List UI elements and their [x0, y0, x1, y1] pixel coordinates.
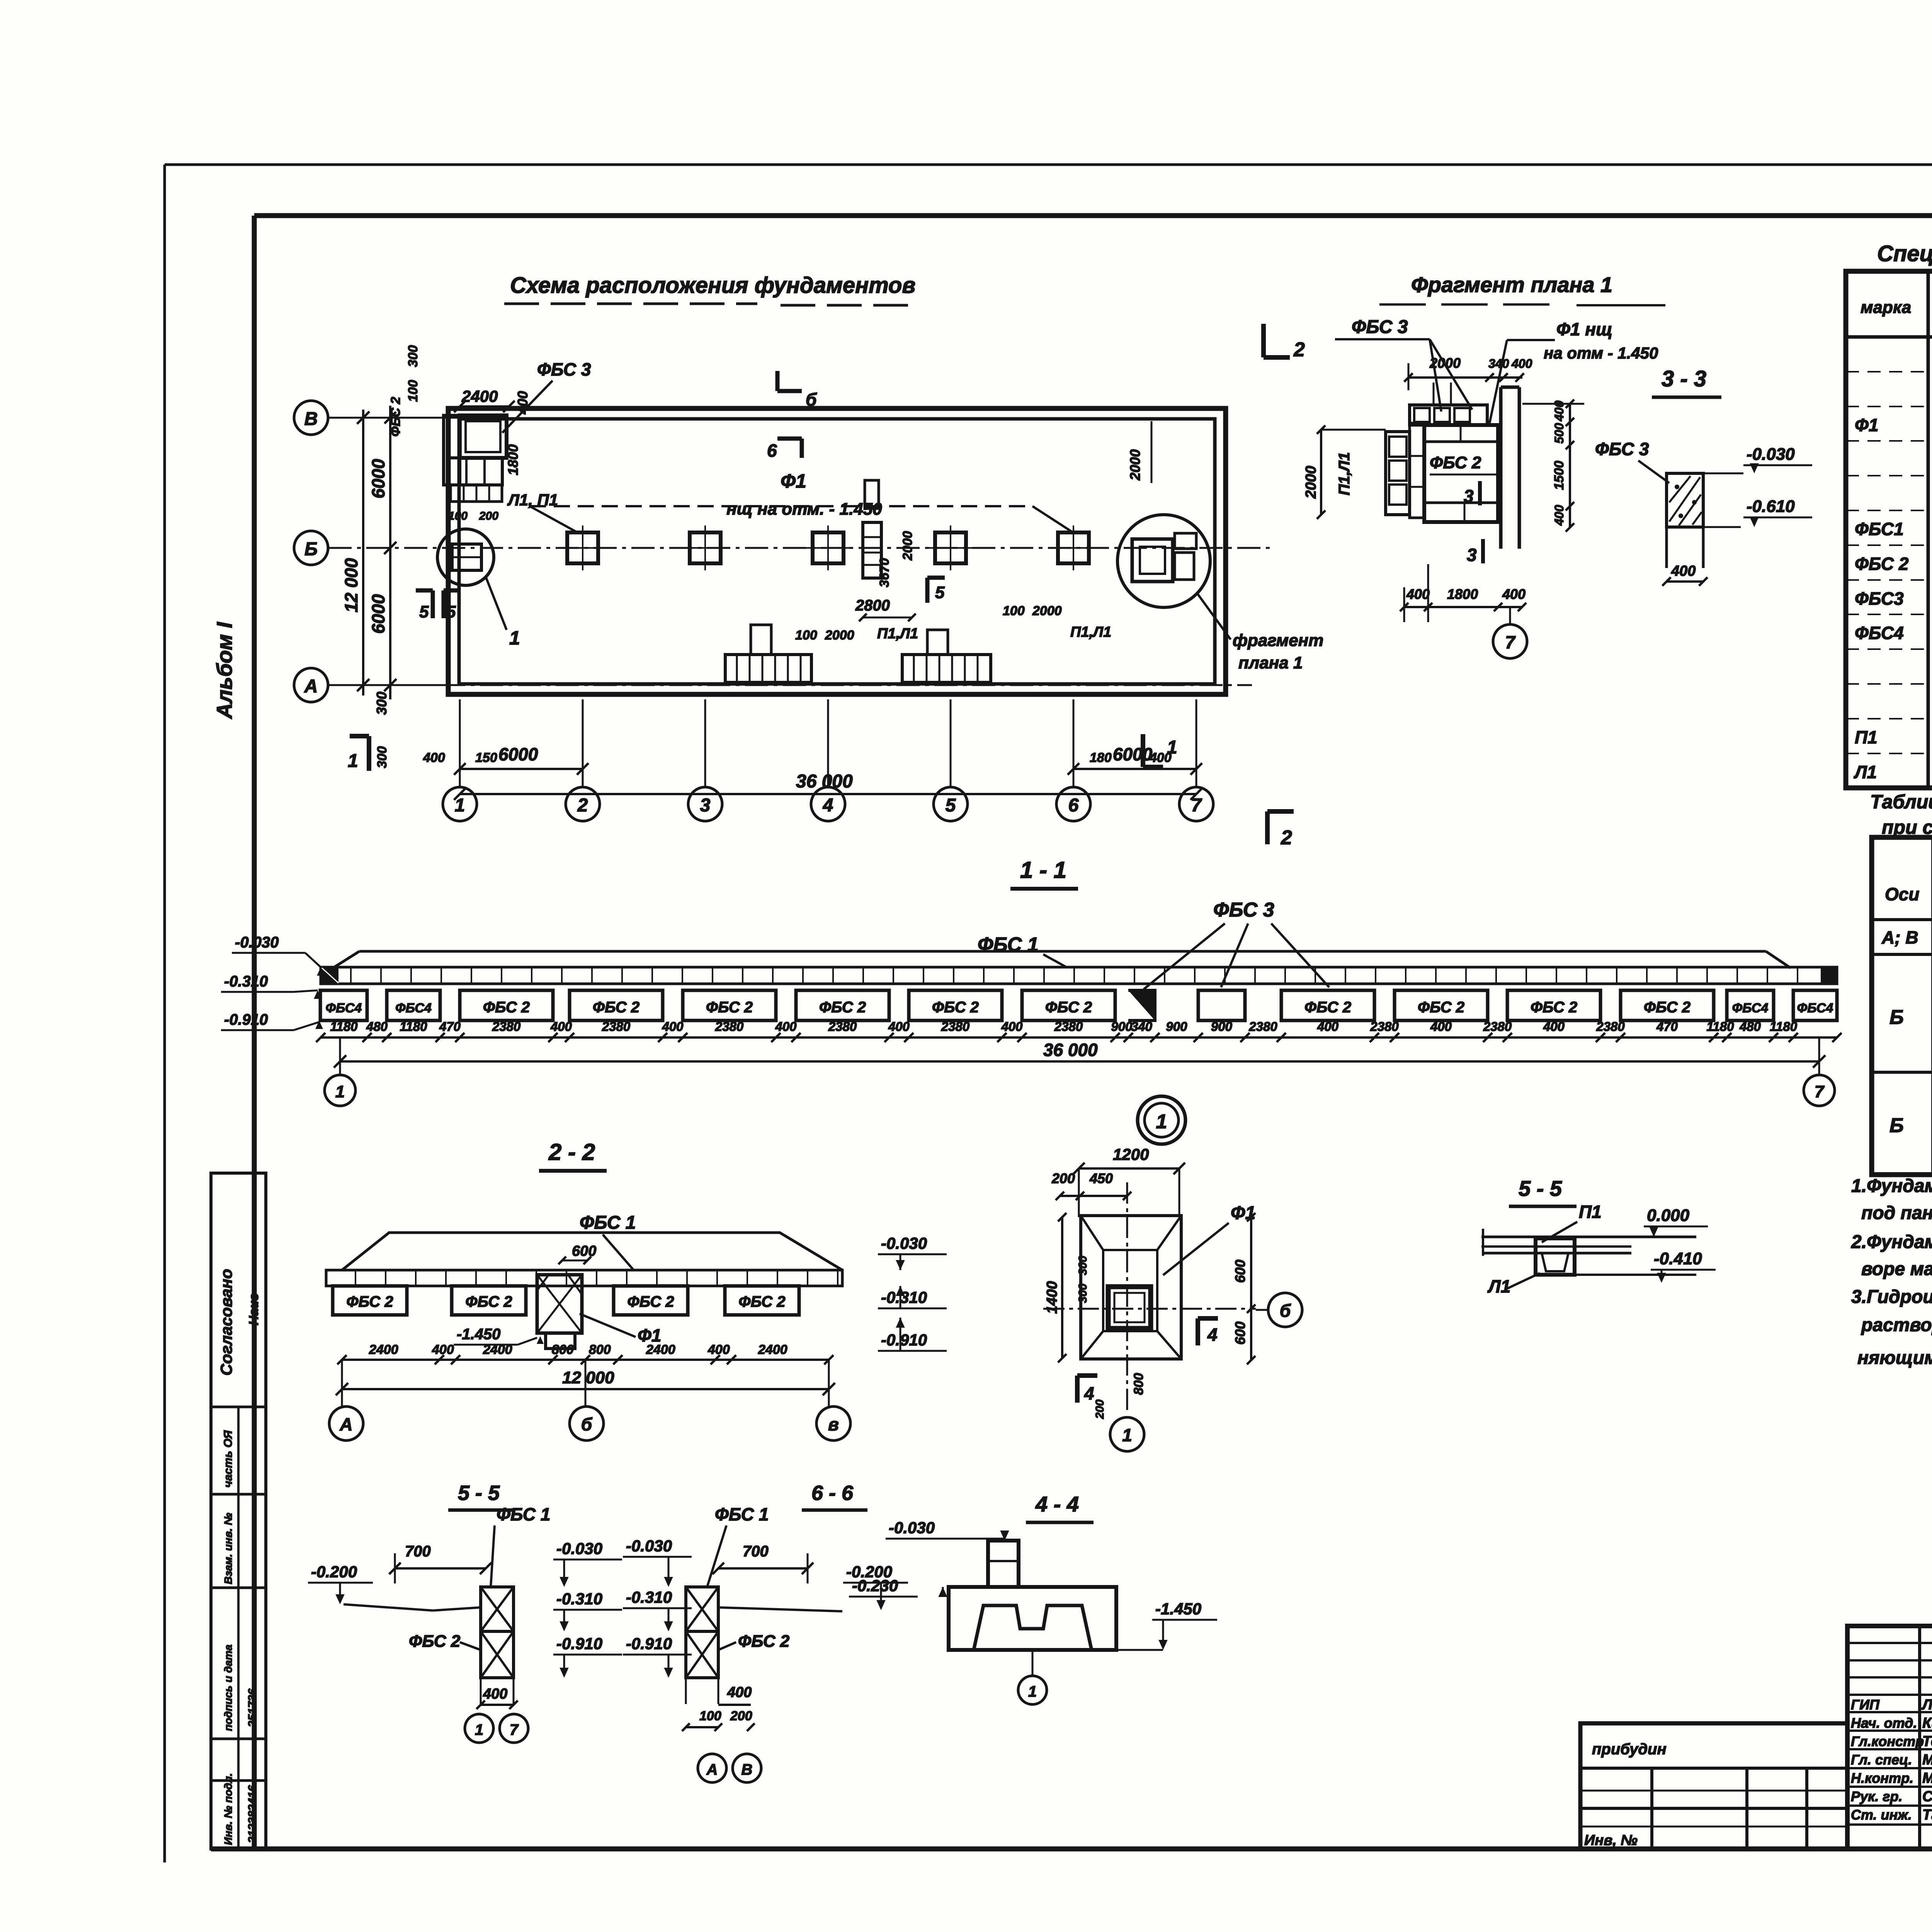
svg-text:Ст. инж.: Ст. инж.	[1851, 1807, 1912, 1823]
svg-text:700: 700	[405, 1543, 431, 1560]
load table caption	[1870, 791, 1932, 838]
svg-text:6: 6	[1068, 795, 1079, 816]
svg-text:Скобликов: Скобликов	[1922, 1789, 1932, 1805]
svg-text:1: 1	[509, 627, 520, 649]
footing Ф1 plan detail outer	[1081, 1216, 1181, 1359]
svg-text:ФБС 2: ФБС 2	[1855, 554, 1909, 574]
svg-text:900: 900	[1166, 1019, 1187, 1034]
svg-text:П1: П1	[1855, 727, 1878, 747]
svg-text:0.000: 0.000	[1647, 1206, 1690, 1225]
svg-text:б: б	[806, 389, 817, 410]
svg-text:ФБС 3: ФБС 3	[1213, 899, 1274, 921]
detail circle 1 below strip	[1138, 1096, 1185, 1144]
section 5-5 labels	[308, 1504, 622, 1709]
svg-text:36 000: 36 000	[1043, 1040, 1098, 1060]
svg-text:ГИП: ГИП	[1851, 1697, 1880, 1713]
fragment callout circle at column 7	[1117, 515, 1231, 639]
svg-text:300: 300	[375, 746, 389, 768]
fragment top dims	[1404, 355, 1532, 390]
labels near column 4 canal	[795, 531, 918, 643]
svg-text:600: 600	[1232, 1321, 1248, 1345]
svg-text:Ф1: Ф1	[1855, 415, 1879, 435]
svg-text:2000: 2000	[1127, 449, 1143, 481]
footing Ф1 axis circle Б	[1256, 1293, 1302, 1327]
section 5-5 bottom title	[448, 1481, 514, 1510]
svg-text:400: 400	[1671, 563, 1696, 579]
svg-text:100: 100	[406, 380, 420, 402]
svg-text:300: 300	[1077, 1256, 1089, 1275]
footing Ф1 socket	[1108, 1287, 1151, 1328]
svg-text:нщ на отм. - 1.450: нщ на отм. - 1.450	[726, 500, 882, 519]
svg-text:1.Фундаменты под колонны —: 1.Фундаменты под колонны — сборные желез…	[1851, 1176, 1932, 1196]
svg-text:3670: 3670	[877, 558, 892, 587]
svg-text:2380: 2380	[941, 1019, 970, 1034]
svg-text:2000: 2000	[1303, 466, 1319, 499]
section 1-1 top course outline	[334, 951, 1791, 968]
svg-text:Оси: Оси	[1885, 884, 1919, 904]
svg-text:400: 400	[432, 1342, 454, 1357]
svg-text:2 - 2: 2 - 2	[548, 1139, 595, 1165]
fragment right dims	[1522, 400, 1584, 532]
section 3-3 title	[1652, 366, 1721, 397]
svg-text:1: 1	[1167, 737, 1177, 758]
section 1-1 axis circle 7	[1804, 1075, 1835, 1106]
svg-text:800: 800	[552, 1342, 574, 1357]
svg-text:-0.030: -0.030	[889, 1519, 935, 1537]
svg-text:няющими добавками.: няющими добавками.	[1857, 1348, 1932, 1368]
svg-text:400: 400	[1406, 586, 1430, 602]
svg-text:на отм - 1.450: на отм - 1.450	[1544, 344, 1658, 362]
svg-text:4: 4	[1207, 1325, 1218, 1345]
fragment section marks 3	[1464, 481, 1483, 565]
svg-text:3.Гидроизоляцию для панел: 3.Гидроизоляцию для панелей выполнять из…	[1851, 1287, 1932, 1307]
svg-text:1: 1	[1122, 1425, 1132, 1445]
svg-text:2380: 2380	[492, 1019, 521, 1034]
svg-text:1: 1	[1028, 1683, 1037, 1700]
svg-text:Б: Б	[304, 539, 318, 560]
svg-text:340: 340	[1488, 357, 1509, 371]
svg-text:400: 400	[423, 750, 445, 765]
svg-text:180: 180	[1090, 750, 1112, 765]
svg-text:1200: 1200	[1113, 1145, 1149, 1163]
svg-text:-0.310: -0.310	[224, 973, 268, 990]
stamp left table	[1580, 1723, 1847, 1849]
svg-text:2: 2	[1281, 827, 1292, 849]
svg-text:2380: 2380	[602, 1019, 631, 1034]
fragment Ф1 label top	[1490, 319, 1658, 423]
section 1-1 canal gap blocks	[1128, 990, 1245, 1020]
svg-text:в: в	[828, 1414, 839, 1434]
section 4-4 title	[1026, 1492, 1094, 1522]
svg-text:ФБС4: ФБС4	[1732, 1001, 1769, 1015]
section 4-4 axis circle 1	[1018, 1650, 1047, 1704]
svg-text:1: 1	[1156, 1111, 1167, 1133]
svg-text:300: 300	[374, 692, 389, 715]
svg-text:ФБС 1: ФБС 1	[978, 934, 1039, 956]
svg-text:Марков: Марков	[1922, 1752, 1932, 1768]
svg-text:ФБС1: ФБС1	[1855, 519, 1904, 539]
svg-text:900: 900	[1111, 1019, 1133, 1034]
svg-text:500: 500	[1552, 423, 1566, 444]
svg-text:-0.030: -0.030	[1747, 445, 1795, 464]
svg-text:100: 100	[795, 628, 817, 643]
svg-text:400: 400	[888, 1019, 910, 1034]
load table row A B	[1881, 922, 1932, 954]
svg-text:ФБС 2: ФБС 2	[627, 1293, 674, 1310]
svg-text:36 000: 36 000	[796, 771, 853, 792]
section 2-2 block row	[333, 1286, 799, 1315]
svg-text:4 - 4: 4 - 4	[1035, 1492, 1079, 1516]
section 2-2 dimension row	[337, 1342, 833, 1364]
svg-text:-0.310: -0.310	[881, 1288, 927, 1306]
section marks 5-5 on plan left	[416, 590, 461, 621]
svg-text:-1.450: -1.450	[1155, 1600, 1201, 1618]
svg-text:480: 480	[1739, 1019, 1761, 1034]
canal plates at bottom wall near column 4	[725, 625, 811, 682]
fragment callout label	[1233, 631, 1323, 672]
canal plates at bottom wall near column 5	[902, 630, 991, 682]
fragment block label	[1430, 453, 1499, 487]
section 2-2 title	[539, 1139, 607, 1171]
section mark 4 bottom	[1077, 1376, 1097, 1403]
svg-text:900: 900	[1211, 1019, 1233, 1034]
notes text	[1851, 1176, 1932, 1368]
svg-text:400: 400	[775, 1019, 797, 1034]
svg-text:2400: 2400	[646, 1342, 675, 1357]
svg-text:ФБС 2: ФБС 2	[738, 1293, 785, 1310]
svg-text:1800: 1800	[1447, 586, 1478, 602]
svg-text:Спецификация к схеме располо: Спецификация к схеме расположения фундам…	[1877, 241, 1932, 266]
fragment plan title	[1379, 272, 1665, 305]
svg-text:ФБС 2: ФБС 2	[1045, 999, 1092, 1016]
svg-text:ФБС 2: ФБС 2	[1430, 453, 1481, 472]
svg-text:5: 5	[935, 583, 945, 602]
svg-text:400: 400	[550, 1019, 572, 1034]
svg-text:Ф1 нщ: Ф1 нщ	[1556, 319, 1612, 339]
svg-text:251736: 251736	[246, 1689, 259, 1728]
fragment right wall	[1501, 387, 1519, 549]
svg-text:ФБС 2: ФБС 2	[1304, 999, 1351, 1016]
section 2-2 axis circle B	[816, 1406, 850, 1440]
svg-text:4: 4	[823, 795, 833, 816]
svg-text:раствора состава 1:2: раствора состава 1:2 толщ. 30мм на отм.-…	[1861, 1315, 1932, 1335]
specification table headers	[1861, 291, 1932, 332]
labels near column 5 canal	[1003, 604, 1111, 640]
section 1-1 axis circle 1	[325, 1075, 355, 1106]
svg-text:300: 300	[406, 345, 420, 367]
svg-text:Рук. гр.: Рук. гр.	[1851, 1789, 1903, 1804]
svg-text:ФБС 2: ФБС 2	[1531, 999, 1577, 1016]
svg-text:2.Фундаментные блоки у: 2.Фундаментные блоки укладывать на цемен…	[1851, 1232, 1932, 1252]
svg-text:Ким: Ким	[1922, 1715, 1932, 1731]
svg-text:400: 400	[1511, 357, 1532, 371]
svg-text:480: 480	[366, 1019, 388, 1034]
svg-text:ФБС 2: ФБС 2	[819, 999, 866, 1016]
plate detail labels	[1487, 1202, 1716, 1296]
svg-text:Б: Б	[1889, 1114, 1904, 1137]
svg-text:-0.230: -0.230	[852, 1577, 898, 1595]
stamp signature table	[1847, 1626, 1932, 1849]
detail circle at column 1	[437, 529, 520, 649]
svg-text:-0.910: -0.910	[224, 1011, 268, 1028]
section 1-1 block row	[320, 990, 1837, 1020]
svg-text:5 - 5: 5 - 5	[1519, 1176, 1562, 1201]
fragment ФБС3 label top	[1335, 317, 1472, 412]
plate detail trough	[1536, 1238, 1575, 1275]
svg-text:7: 7	[510, 1721, 519, 1738]
svg-text:470: 470	[1656, 1019, 1678, 1034]
svg-text:ФБС4: ФБС4	[395, 1001, 432, 1015]
svg-text:А: А	[706, 1761, 718, 1778]
svg-text:П1: П1	[1579, 1202, 1602, 1222]
svg-text:6: 6	[767, 440, 777, 461]
section 1-1 brick band	[321, 967, 1837, 984]
svg-text:-0.030: -0.030	[881, 1234, 927, 1252]
svg-text:2000: 2000	[900, 531, 915, 561]
section 5-5 ground line	[344, 1604, 481, 1611]
svg-text:ФБС 2: ФБС 2	[1644, 999, 1690, 1016]
load table grid	[1872, 837, 1932, 1175]
svg-text:2380: 2380	[1483, 1019, 1512, 1034]
svg-text:Альбом I: Альбом I	[212, 622, 236, 719]
svg-text:3: 3	[1467, 545, 1477, 565]
svg-text:А; В: А; В	[1881, 927, 1918, 947]
footing Ф1 label	[1163, 1203, 1255, 1275]
svg-text:2000: 2000	[1429, 355, 1461, 371]
svg-text:ФБС 3: ФБС 3	[1352, 317, 1408, 337]
svg-text:400: 400	[515, 391, 531, 415]
section 5-5 blocks	[481, 1587, 514, 1704]
canal plates near column 4	[863, 480, 881, 578]
svg-text:-0.030: -0.030	[235, 934, 279, 951]
svg-text:5: 5	[419, 602, 429, 621]
svg-text:1800: 1800	[505, 444, 521, 475]
svg-text:1180: 1180	[400, 1019, 428, 1034]
axis circles 1-7 bottom	[443, 699, 1213, 821]
section 2-2 elevation marks right	[878, 1234, 947, 1351]
section 1-1 labels	[978, 899, 1329, 989]
svg-text:1400: 1400	[1044, 1281, 1060, 1314]
svg-text:-0.610: -0.610	[1747, 497, 1795, 516]
svg-text:Л1: Л1	[1854, 762, 1877, 782]
fragment main block	[1424, 425, 1498, 522]
svg-text:7: 7	[1505, 632, 1516, 652]
svg-text:700: 700	[743, 1543, 769, 1560]
svg-text:800: 800	[589, 1342, 611, 1357]
svg-text:3: 3	[700, 795, 711, 816]
svg-text:б: б	[1280, 1301, 1291, 1321]
svg-text:-0.910: -0.910	[626, 1634, 672, 1653]
svg-text:Взам. инв. №: Взам. инв. №	[222, 1513, 234, 1584]
svg-text:12 000: 12 000	[562, 1368, 614, 1387]
svg-text:1 - 1: 1 - 1	[1020, 857, 1066, 883]
svg-text:470: 470	[439, 1019, 461, 1034]
svg-text:Гл. спец.: Гл. спец.	[1851, 1752, 1912, 1768]
svg-text:12 000: 12 000	[341, 558, 361, 612]
svg-text:ФБС 2: ФБС 2	[346, 1293, 393, 1310]
svg-text:400: 400	[1552, 505, 1566, 526]
svg-text:Согласовано: Согласовано	[217, 1269, 235, 1376]
svg-text:2: 2	[1293, 338, 1305, 361]
section 1-1 total dimension	[334, 1037, 1825, 1076]
svg-text:-0.200: -0.200	[311, 1563, 357, 1581]
section 6-6 blocks	[686, 1587, 718, 1704]
svg-text:2400: 2400	[758, 1342, 787, 1357]
section 1-1 left elevation marks	[221, 934, 325, 1030]
svg-text:ФБС 2: ФБС 2	[465, 1293, 512, 1310]
svg-text:212382416: 212382416	[246, 1785, 259, 1844]
svg-text:ФБС 1: ФБС 1	[497, 1504, 550, 1524]
footing Ф1 dims	[1044, 1145, 1255, 1419]
svg-text:2380: 2380	[1248, 1019, 1277, 1034]
svg-text:1500: 1500	[1552, 461, 1566, 490]
section 1-1 dimension row	[316, 1019, 1842, 1042]
svg-text:прибудин: прибудин	[1592, 1741, 1667, 1758]
svg-text:П1,Л1: П1,Л1	[877, 626, 918, 642]
axis A line	[328, 684, 1252, 686]
section 6-6 ground line	[718, 1607, 842, 1611]
svg-text:ФБС 1: ФБС 1	[715, 1504, 769, 1524]
svg-text:ФБС 2: ФБС 2	[1418, 999, 1464, 1016]
column footing squares on axis Б	[560, 526, 1096, 570]
svg-text:часть ОЯ: часть ОЯ	[222, 1430, 235, 1488]
svg-text:-0.910: -0.910	[556, 1634, 602, 1653]
svg-text:Лобченкова: Лобченкова	[1921, 1697, 1932, 1713]
svg-text:Таирова: Таирова	[1922, 1807, 1932, 1823]
footing Ф1 centerlines	[1043, 1182, 1256, 1414]
section mark 1-1 left	[348, 736, 369, 771]
fragment left plates	[1386, 423, 1424, 518]
svg-text:плана 1: плана 1	[1238, 653, 1303, 672]
svg-text:-0.310: -0.310	[556, 1590, 602, 1608]
svg-text:2400: 2400	[483, 1342, 512, 1357]
svg-text:3: 3	[1464, 486, 1474, 506]
svg-text:400: 400	[1317, 1019, 1339, 1034]
svg-text:-0.410: -0.410	[1654, 1249, 1702, 1268]
svg-text:450: 450	[1089, 1170, 1113, 1186]
plate detail 5-5 title	[1509, 1176, 1577, 1206]
svg-text:Ф1: Ф1	[781, 470, 806, 492]
svg-text:2380: 2380	[1054, 1019, 1083, 1034]
section 2-2 axis circle Б	[570, 1406, 604, 1440]
svg-text:200: 200	[1094, 1400, 1106, 1419]
svg-text:400: 400	[483, 1686, 507, 1702]
svg-text:ФБС 2: ФБС 2	[483, 999, 530, 1016]
svg-text:Л1: Л1	[1487, 1276, 1510, 1296]
svg-text:Тепяковский: Тепяковский	[1922, 1733, 1932, 1750]
section mark 2 bottom at fragment	[1267, 811, 1294, 849]
svg-text:ФБС 2: ФБС 2	[738, 1632, 790, 1651]
axis circle Б	[294, 531, 328, 565]
axis Б line	[328, 547, 1271, 549]
svg-text:ФБС 3: ФБС 3	[1595, 439, 1649, 459]
svg-text:6000: 6000	[1113, 744, 1153, 764]
svg-text:П1,Л1: П1,Л1	[1070, 624, 1111, 640]
section mark 2 top at fragment	[1264, 324, 1305, 361]
svg-text:400: 400	[1001, 1019, 1023, 1034]
section 5-5 axis circles 1 7	[465, 1714, 528, 1743]
svg-text:Таблица расчетных нагру: Таблица расчетных нагрузок на верхний об…	[1870, 791, 1932, 813]
section 6-6 bottom title	[802, 1481, 867, 1510]
svg-text:ФБС 2: ФБС 2	[388, 397, 403, 437]
svg-text:600: 600	[1232, 1260, 1248, 1283]
section 3-3 labels	[1595, 439, 1812, 586]
right side dim 2000	[1127, 421, 1151, 483]
svg-text:-1.450: -1.450	[457, 1326, 500, 1343]
svg-text:2400: 2400	[461, 387, 498, 405]
svg-text:фрагмент: фрагмент	[1233, 631, 1323, 650]
svg-text:ФБС 3: ФБС 3	[537, 359, 591, 379]
svg-text:1180: 1180	[1707, 1019, 1735, 1034]
svg-text:4: 4	[1084, 1383, 1094, 1403]
specification table rows	[1854, 345, 1932, 782]
svg-text:Схема расположения фундаме: Схема расположения фундаментов	[510, 273, 915, 298]
svg-text:400: 400	[1502, 586, 1526, 602]
svg-text:подпись и дата: подпись и дата	[222, 1645, 234, 1731]
section marks 6-6 top	[767, 371, 817, 461]
svg-text:100: 100	[699, 1709, 721, 1723]
top-left detail labels	[388, 345, 591, 522]
svg-text:Инв, №: Инв, №	[1584, 1832, 1638, 1849]
svg-text:б: б	[581, 1414, 593, 1434]
svg-text:1180: 1180	[1770, 1019, 1798, 1034]
svg-text:П1,Л1: П1,Л1	[1336, 452, 1353, 495]
svg-text:1: 1	[475, 1721, 483, 1738]
section 1-1 title	[1010, 857, 1078, 889]
section 4-4 labels	[849, 1519, 1217, 1650]
svg-text:1180: 1180	[330, 1019, 358, 1034]
section 2-2 center footing Ф1	[537, 1275, 582, 1349]
svg-text:ФБС 2: ФБС 2	[932, 999, 979, 1016]
svg-text:Б: Б	[1889, 1006, 1904, 1029]
fragment left dim 2000	[1303, 425, 1386, 519]
section marks 5-5 near column 4	[927, 578, 945, 603]
svg-text:600: 600	[572, 1243, 596, 1259]
plate detail slab lines	[1481, 1229, 1696, 1256]
svg-text:340: 340	[1131, 1019, 1153, 1034]
svg-text:марка: марка	[1861, 298, 1911, 317]
svg-text:под панели - фундаментные: под панели - фундаментные блоки.	[1861, 1203, 1932, 1223]
svg-text:1: 1	[348, 751, 358, 771]
svg-text:ФБС 1: ФБС 1	[580, 1213, 636, 1233]
svg-text:А: А	[339, 1414, 352, 1434]
section mark 1-1 right	[1143, 734, 1177, 767]
building outline plan	[448, 408, 1226, 694]
svg-text:800: 800	[1131, 1373, 1146, 1395]
section 2-2 top course	[326, 1233, 842, 1286]
svg-text:2380: 2380	[715, 1019, 744, 1034]
load table row Б2	[1889, 1089, 1932, 1152]
fragment axis circle 7	[1493, 607, 1527, 658]
svg-text:Фрагмент плана 1: Фрагмент плана 1	[1411, 272, 1612, 297]
svg-text:3 - 3: 3 - 3	[1662, 366, 1706, 391]
svg-text:2400: 2400	[369, 1342, 398, 1357]
svg-text:400: 400	[707, 1342, 730, 1357]
svg-text:Haus: Haus	[247, 1293, 261, 1325]
section 3-3 block	[1667, 473, 1703, 568]
svg-text:2380: 2380	[828, 1019, 857, 1034]
svg-text:ФБС3: ФБС3	[1855, 588, 1904, 609]
svg-text:2000: 2000	[825, 628, 854, 643]
svg-text:А: А	[304, 676, 318, 697]
svg-text:200: 200	[1051, 1170, 1075, 1186]
svg-text:1: 1	[335, 1082, 345, 1101]
svg-text:-0.030: -0.030	[626, 1537, 672, 1555]
section 6-6 axis circles A B	[698, 1754, 761, 1782]
section 4-4 body	[949, 1541, 1116, 1650]
load table headers	[1885, 841, 1932, 918]
svg-text:400: 400	[662, 1019, 684, 1034]
